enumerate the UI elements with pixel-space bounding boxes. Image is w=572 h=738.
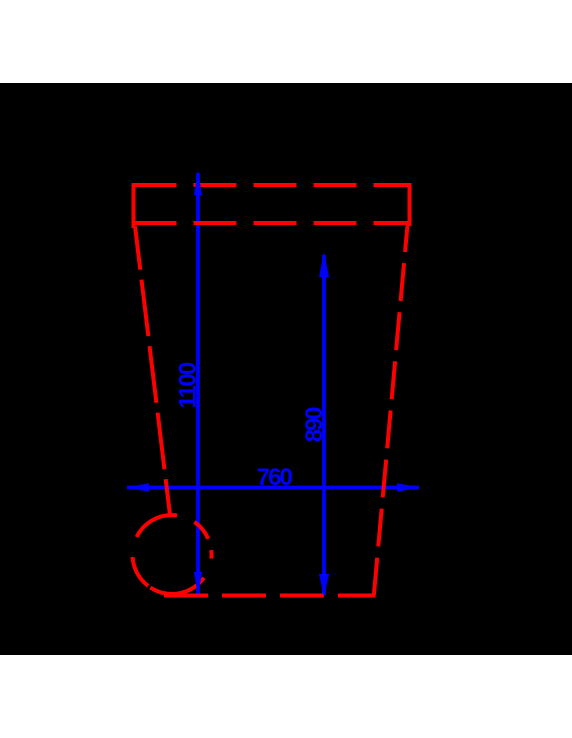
bin lid bottom edge (dashed red) xyxy=(134,221,411,225)
bin lid right edge xyxy=(408,183,412,226)
bin body right slant edge (dashed red) xyxy=(374,225,408,596)
arrowhead right of 760 xyxy=(397,483,420,492)
arrowhead left of 760 xyxy=(126,483,149,492)
arrowhead bottom of 1100 xyxy=(194,572,202,597)
bin lid top edge (dashed red) xyxy=(134,183,411,187)
bin body left slant edge (dashed red) xyxy=(135,226,170,515)
bin lid left edge xyxy=(132,183,136,228)
wheel circle (dashed red) xyxy=(133,515,212,594)
svg-text:890: 890 xyxy=(301,407,328,442)
dimension line 890 (vertical shaft) xyxy=(322,255,326,595)
svg-text:1100: 1100 xyxy=(175,362,202,408)
arrowhead top of 1100 xyxy=(194,170,202,195)
dimension line 760 (horizontal shaft) xyxy=(127,486,419,490)
svg-text:760: 760 xyxy=(257,464,293,491)
arrowhead bottom of 890 xyxy=(319,574,329,597)
dimension line 1100 (vertical shaft) xyxy=(196,173,200,595)
bin bottom edge (dashed red) xyxy=(164,594,376,598)
drawing canvas (black) xyxy=(0,83,572,655)
arrowhead top of 890 xyxy=(319,252,329,277)
